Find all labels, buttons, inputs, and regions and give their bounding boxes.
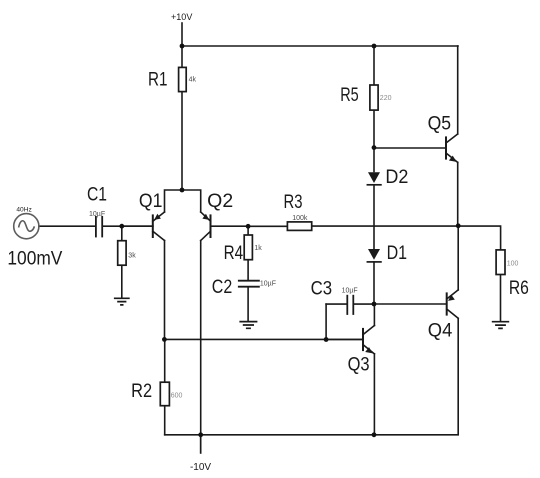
- svg-text:R6: R6: [509, 278, 529, 299]
- svg-text:R3: R3: [284, 192, 303, 213]
- svg-text:Q1: Q1: [139, 191, 163, 212]
- svg-text:R4: R4: [224, 243, 244, 264]
- svg-text:C2: C2: [212, 277, 233, 298]
- svg-text:C1: C1: [87, 184, 107, 205]
- svg-text:-10V: -10V: [190, 462, 211, 473]
- svg-text:10µF: 10µF: [342, 288, 358, 295]
- svg-text:10µF: 10µF: [260, 281, 276, 288]
- svg-text:R1: R1: [148, 70, 168, 91]
- svg-text:Q3: Q3: [348, 354, 370, 375]
- svg-text:R5: R5: [340, 85, 359, 106]
- svg-text:Q2: Q2: [207, 191, 233, 212]
- svg-text:R2: R2: [131, 381, 152, 402]
- svg-text:D2: D2: [385, 167, 408, 188]
- svg-text:3k: 3k: [128, 253, 136, 260]
- svg-text:4k: 4k: [189, 77, 197, 84]
- svg-text:10µF: 10µF: [89, 211, 105, 218]
- svg-text:Q5: Q5: [428, 113, 452, 134]
- svg-text:100k: 100k: [292, 215, 308, 222]
- svg-text:40Hz: 40Hz: [16, 206, 31, 213]
- svg-text:D1: D1: [387, 243, 408, 264]
- svg-text:+10V: +10V: [171, 12, 192, 22]
- svg-text:220: 220: [380, 95, 392, 102]
- svg-text:1k: 1k: [254, 245, 262, 252]
- svg-text:100mV: 100mV: [7, 248, 62, 269]
- svg-text:600: 600: [171, 393, 183, 400]
- svg-text:C3: C3: [311, 279, 333, 300]
- svg-text:Q4: Q4: [428, 320, 453, 341]
- svg-text:100: 100: [507, 260, 519, 267]
